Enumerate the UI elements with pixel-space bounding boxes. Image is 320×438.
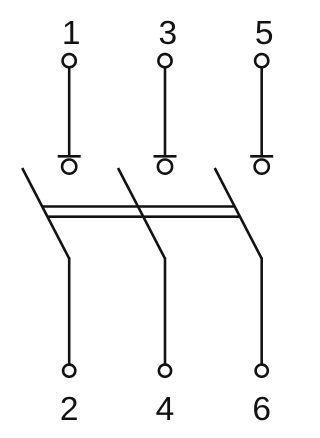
fixed contact circle, pole 1	[62, 160, 76, 174]
terminal 2 circle	[63, 365, 75, 377]
mechanical linkage bar (upper)	[42, 205, 235, 208]
fixed contact T-bar, pole 1	[58, 155, 81, 158]
terminal 3 circle	[158, 54, 171, 67]
switch blade, pole 2	[118, 168, 165, 259]
wire: blade to terminal 4	[164, 257, 167, 364]
terminal 4 circle	[159, 365, 171, 377]
svg-text:5: 5	[255, 15, 274, 52]
wire: terminal 5 lead	[260, 68, 263, 157]
svg-text:4: 4	[156, 391, 175, 428]
svg-text:2: 2	[60, 391, 79, 428]
wire: terminal 1 lead	[68, 68, 71, 157]
wire: blade to terminal 2	[68, 257, 71, 364]
fixed contact circle, pole 2	[158, 160, 172, 174]
wire: blade to terminal 6	[260, 257, 263, 364]
svg-text:1: 1	[62, 15, 81, 52]
fixed contact T-bar, pole 3	[250, 155, 273, 158]
switch blade, pole 3	[215, 168, 262, 259]
fixed contact T-bar, pole 2	[154, 155, 177, 158]
mechanical linkage bar (lower)	[47, 215, 240, 218]
svg-text:3: 3	[158, 15, 177, 52]
terminal 5 circle	[255, 54, 268, 67]
fixed contact circle, pole 3	[255, 160, 269, 174]
wire: terminal 3 lead	[164, 68, 167, 157]
switch blade, pole 1	[22, 168, 69, 259]
svg-text:6: 6	[252, 391, 271, 428]
terminal 6 circle	[256, 365, 268, 377]
terminal 1 circle	[63, 54, 76, 67]
